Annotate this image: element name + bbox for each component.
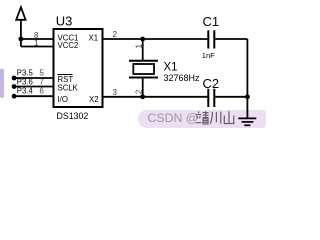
capacitor C1 xyxy=(202,14,248,60)
node junction dot VCC xyxy=(19,37,24,42)
svg-text:3: 3 xyxy=(112,88,117,97)
svg-text:C1: C1 xyxy=(203,14,220,29)
node P3.6 dot xyxy=(12,84,17,89)
wire P3.5 to RST pin5 xyxy=(14,77,53,79)
svg-text:SCLK: SCLK xyxy=(58,84,79,93)
svg-text:2: 2 xyxy=(112,30,117,39)
svg-text:I/O: I/O xyxy=(58,95,68,104)
wire C2 right lead xyxy=(215,96,247,98)
watermark hanzi 山 (drawn strokes) xyxy=(224,111,234,123)
wire pin8 xyxy=(21,38,54,40)
svg-text:P3.6: P3.6 xyxy=(17,77,33,86)
svg-text:1: 1 xyxy=(34,39,39,48)
node dot rail-C2 xyxy=(245,94,250,99)
svg-text:32768Hz: 32768Hz xyxy=(164,73,201,83)
capacitor C2 xyxy=(203,76,248,107)
crystal body xyxy=(133,64,154,74)
node dot X1-top xyxy=(140,37,145,42)
wire P3.6 to SCLK pin7 xyxy=(14,86,53,88)
node dot X1-bottom xyxy=(140,94,145,99)
wire crystal bottom stub xyxy=(142,78,144,97)
svg-text:C2: C2 xyxy=(203,76,220,91)
svg-text:VCC2: VCC2 xyxy=(58,41,79,50)
C2 left plate xyxy=(207,89,209,107)
crystal top plate xyxy=(129,60,158,62)
node P3.4 dot xyxy=(12,94,17,99)
svg-text:5: 5 xyxy=(39,69,44,78)
wire pin2 X1 net xyxy=(103,38,208,40)
wire C1 right lead xyxy=(215,38,247,40)
svg-text:P3.5: P3.5 xyxy=(17,69,34,78)
wire crystal top stub xyxy=(142,39,144,61)
C1 left plate xyxy=(207,30,209,48)
svg-text:DS1302: DS1302 xyxy=(57,111,89,121)
wire pin1 xyxy=(21,46,54,48)
wire right rail xyxy=(246,39,248,118)
wire pin3 X2 net xyxy=(103,96,208,98)
watermark hanzi 靖 (drawn strokes) xyxy=(196,111,209,124)
node P3.5 dot xyxy=(12,76,17,81)
svg-text:7: 7 xyxy=(39,77,44,86)
power symbol (arrow up) xyxy=(16,7,25,46)
watermark hanzi 川 (drawn strokes) xyxy=(210,112,221,124)
watermark left strip xyxy=(0,69,4,99)
svg-text:P3.4: P3.4 xyxy=(17,86,34,95)
crystal bottom plate xyxy=(129,77,158,79)
svg-text:6: 6 xyxy=(39,86,44,95)
svg-text:2: 2 xyxy=(134,89,143,94)
crystal X1 xyxy=(129,39,158,97)
svg-text:1nF: 1nF xyxy=(202,51,215,60)
wire P3.4 to I/O pin6 xyxy=(14,95,53,97)
svg-text:U3: U3 xyxy=(56,14,73,29)
chip U3 box xyxy=(54,29,103,107)
svg-text:X1: X1 xyxy=(89,34,99,43)
svg-text:X2: X2 xyxy=(89,95,99,104)
svg-text:X1: X1 xyxy=(164,62,178,74)
C2 right plate xyxy=(213,89,215,107)
svg-text:1: 1 xyxy=(134,44,143,49)
svg-text:CSDN @: CSDN @ xyxy=(148,111,199,125)
ground xyxy=(238,118,256,125)
watermark badge bottom right xyxy=(138,110,270,128)
C1 right plate xyxy=(213,30,215,48)
